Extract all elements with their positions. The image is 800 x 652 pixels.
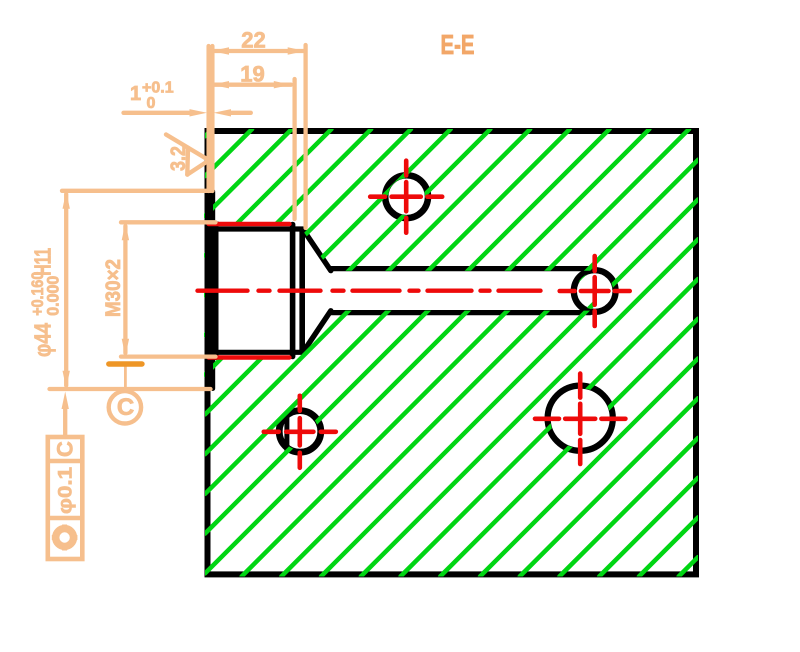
hole H2 (passage end): [574, 270, 616, 312]
plate body (white fill): [204, 128, 699, 578]
feature control frame (position tolerance): [48, 437, 83, 559]
arrow 19 right: [274, 81, 292, 88]
arrow 22 right: [288, 47, 306, 54]
center mark hole H1 (top): [370, 161, 442, 233]
arrow 1 left: [190, 109, 208, 116]
M30 extension bottom: [121, 354, 216, 358]
thread major diameter lines (red): [198, 224, 547, 358]
cone top edge: [304, 231, 331, 271]
cone bottom edge: [304, 311, 331, 351]
FCF leader line: [63, 407, 67, 437]
center mark hole H3 (bottom-left): [264, 396, 336, 468]
dimension line 19: [212, 83, 291, 87]
svg-text:M30×2: M30×2: [102, 259, 125, 317]
svg-text:1: 1: [130, 83, 141, 105]
extension line at drill end (22): [303, 45, 307, 228]
thread end line (19 deep): [290, 225, 296, 357]
datum C stem: [124, 366, 127, 392]
centerline of passage (dash-dot): [198, 289, 547, 293]
dimension 1 leader left: [124, 111, 190, 115]
svg-text:19: 19: [240, 62, 264, 87]
datum C circle: [109, 391, 141, 423]
M30 extension top: [121, 220, 216, 224]
svg-text:C: C: [117, 394, 134, 421]
hole H1 (top): [385, 175, 428, 218]
arrow phi44 bottom: [63, 371, 70, 389]
arrow FCF leader up: [62, 392, 69, 410]
svg-text:φ0.1: φ0.1: [56, 467, 77, 514]
hole section profile (black): [205, 192, 590, 389]
thread minor line top: [216, 226, 303, 231]
phi44 dimension line: [64, 194, 68, 386]
svg-text:0.000: 0.000: [45, 276, 63, 316]
svg-text:φ44: φ44: [30, 323, 56, 357]
arrow 22 left: [212, 47, 230, 54]
svg-text:E-E: E-E: [441, 29, 475, 60]
extension line left at spotface bottom: [210, 46, 214, 191]
extension line at thread end (19): [292, 79, 296, 219]
center mark hole H4 (bottom-right): [535, 374, 625, 464]
thread minor line bottom: [216, 350, 303, 355]
hole H3 (bottom-left): [279, 411, 321, 453]
dimension texts (orange): [29, 28, 266, 422]
arrow phi44 top: [63, 191, 70, 209]
svg-text:+0.1: +0.1: [142, 80, 174, 97]
text phi44 +0.160/0.000 H11 (rotated): [29, 248, 63, 357]
left face / spotface merged bar: [205, 222, 219, 361]
spotface bottom line (phi44 x 1 deep): [210, 192, 215, 389]
arrow 1 right: [214, 109, 232, 116]
phi44 extension top: [62, 189, 211, 193]
svg-text:0: 0: [147, 95, 156, 112]
extension line left at face: [206, 46, 210, 191]
plate outline: [208, 131, 697, 574]
drill depth line (22 deep): [299, 230, 305, 352]
svg-text:H11: H11: [30, 248, 56, 276]
svg-text:3.2: 3.2: [167, 146, 190, 171]
section hatching (green): [205, 129, 698, 577]
dimension arrowheads (orange): [62, 47, 306, 409]
M30 dimension line: [123, 226, 127, 353]
intersection chord in hole H3: [284, 419, 289, 451]
surface finish symbol (rotated, on left face): [166, 135, 209, 175]
hole H4 (bottom-right): [548, 386, 613, 451]
center marks (red): [264, 161, 630, 468]
passage bottom edge: [330, 310, 590, 315]
datum C target bar: [109, 361, 142, 366]
dimension line 22: [212, 49, 305, 53]
passage top edge: [330, 266, 590, 271]
center mark hole H2 (passage end): [560, 256, 630, 326]
dimension geometry (orange): [50, 45, 306, 437]
position symbol: [56, 529, 74, 547]
svg-text:C: C: [53, 441, 78, 457]
phi44 extension bottom: [50, 387, 211, 391]
arrow 19 left: [212, 81, 230, 88]
arrow M30 top: [122, 223, 129, 241]
svg-text:22: 22: [241, 28, 265, 53]
dimension 1 leader right tail: [231, 111, 251, 115]
arrow M30 bottom: [122, 339, 129, 357]
